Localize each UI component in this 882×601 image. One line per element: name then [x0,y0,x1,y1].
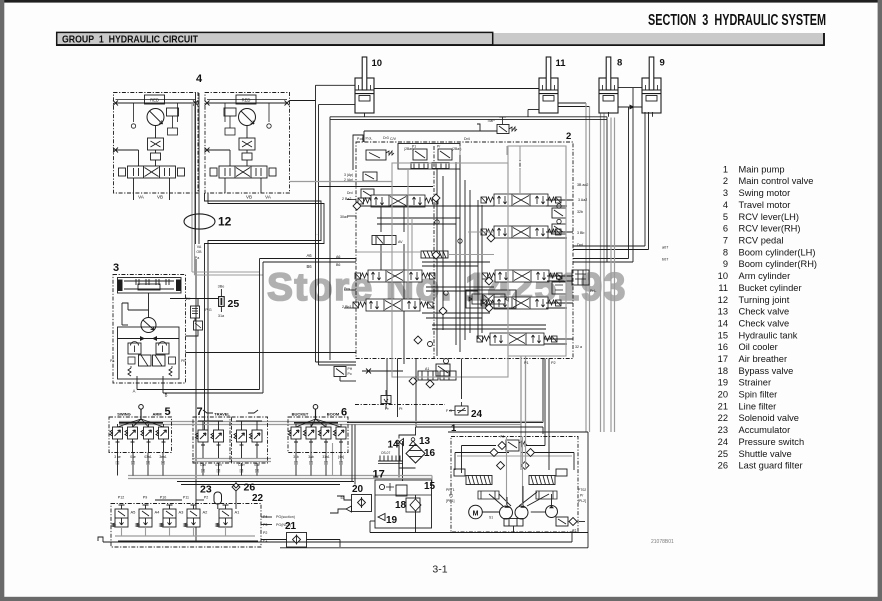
wire: lines below turning joint [195,259,197,542]
svg-text:BUCKET: BUCKET [292,412,309,417]
svg-text:24: 24 [471,409,483,420]
check valve 14 [396,439,404,446]
svg-text:Travel motor: Travel motor [739,200,791,210]
svg-text:A4: A4 [155,510,161,515]
svg-text:PB: PB [181,359,186,363]
svg-text:Swing motor: Swing motor [739,188,791,198]
solenoid valve A4 [136,505,152,527]
swing motor port wires A/B [137,259,356,394]
group header box [57,32,493,44]
wire: right side vertical pipes from cylinders [573,88,649,432]
wire: valve internal verticals [381,146,520,364]
bypass valve 18-left small [334,367,356,382]
svg-text:P12: P12 [118,496,124,500]
svg-text:BOOM: BOOM [327,412,340,417]
wire: pump discharge [462,434,552,506]
svg-text:19: 19 [386,515,398,526]
wire: return line to cooler [416,359,543,435]
pilot relief valve top [462,435,546,452]
svg-text:10: 10 [718,271,728,281]
svg-text:P9: P9 [143,496,147,500]
wire: gray pilot lines inside valve [356,146,566,333]
svg-text:VB: VB [157,195,163,200]
svg-text:30a4: 30a4 [340,215,348,219]
shuttle valve 25 [170,285,225,337]
aux pilot valve right column second [552,219,566,234]
solenoid valve block enclosure (dash-dot) [111,504,261,548]
svg-text:RCV pedal: RCV pedal [739,236,784,246]
boom1 spool [481,194,561,206]
svg-text:AV: AV [398,240,403,244]
pump outer frame [448,432,588,548]
wire: Pr P1 stubs below valve [385,359,462,418]
svg-text:21: 21 [285,521,297,532]
hydraulic tank 15 [375,480,432,528]
svg-text:Solenoid valve: Solenoid valve [739,413,799,423]
svg-text:Pa: Pa [195,256,199,260]
aux valve between right spools [552,204,589,294]
svg-text:10: 10 [372,58,383,69]
svg-text:A6: A6 [306,253,312,258]
svg-text:31a: 31a [218,314,225,318]
svg-text:a07: a07 [662,246,668,250]
svg-text:8: 8 [617,58,622,69]
svg-text:Main control valve: Main control valve [739,176,814,186]
svg-text:Air breather: Air breather [739,354,788,364]
svg-text:7: 7 [723,236,728,246]
RCV lever RH block 6 [288,405,348,453]
svg-text:PH: PH [348,367,353,371]
svg-text:P11: P11 [183,496,189,500]
svg-text:16: 16 [424,448,436,459]
wire: valve internal horizontals [290,182,573,345]
spin filter 20 [330,495,372,514]
boom2 spool [353,299,433,311]
page top black border [0,0,882,3]
svg-text:P2: P2 [204,496,208,500]
svg-text:Strainer: Strainer [739,378,772,388]
svg-text:b07: b07 [662,258,668,262]
svg-text:Drd: Drd [347,191,353,195]
svg-text:20: 20 [718,390,728,400]
svg-text:Boom cylinder(RH): Boom cylinder(RH) [739,259,818,269]
svg-text:2 Ba2: 2 Ba2 [342,197,351,201]
svg-text:15: 15 [718,330,728,340]
legend list [718,164,817,470]
svg-text:5: 5 [723,212,728,222]
svg-text:B: B [165,393,168,398]
wire: pump internal rails [455,437,574,506]
svg-text:Turning joint: Turning joint [739,295,790,305]
check valve 13 [410,438,417,446]
svg-text:Dr3: Dr3 [383,136,389,140]
svg-text:3Be: 3Be [218,285,225,289]
wire: pilot gray lines to swing area [192,272,263,275]
svg-text:VA: VA [265,195,271,200]
svg-text:Check valve: Check valve [739,307,790,317]
svg-text:3: 3 [113,262,119,274]
svg-text:VB: VB [246,195,252,200]
svg-text:Po: Po [348,372,352,376]
svg-text:A2: A2 [572,529,576,533]
main control valve enclosure (dash-dot) [356,142,573,359]
main pump enclosure (dash-dot) [451,437,578,533]
relief valve on top line [364,117,517,142]
svg-text:M: M [473,511,479,518]
svg-text:PT02: PT02 [578,488,586,492]
svg-text:Accumulator: Accumulator [739,425,791,435]
junction circles [444,291,448,295]
svg-text:12: 12 [718,295,728,305]
air breather 17 [378,451,403,464]
svg-text:RED: RED [242,98,251,103]
svg-text:17: 17 [373,469,385,481]
svg-text:7: 7 [197,406,203,418]
svg-text:OS-07: OS-07 [381,451,390,455]
svg-text:Shuttle valve: Shuttle valve [739,449,792,459]
svg-text:TMP: TMP [487,119,495,123]
svg-text:A2: A2 [203,510,209,515]
swing spool [355,270,435,282]
swing makeup/relief valves [110,303,186,383]
RCV pedal block 7 [193,410,268,463]
drain step symbol [98,537,103,542]
main circuit outer frame [330,117,607,423]
svg-text:18: 18 [718,366,728,376]
bypass cut valve top-left [344,135,394,198]
boom main spool [481,297,561,309]
bucket spool [482,270,562,282]
node diamonds on feed lines [432,194,440,202]
svg-text:4: 4 [723,200,728,210]
travel motor right enclosure (dash-dot) [205,93,290,194]
svg-text:6: 6 [723,224,728,234]
svg-text:[PL2]: [PL2] [578,499,586,503]
svg-text:GROUP 1 HYDRAULIC CIRCUIT: GROUP 1 HYDRAULIC CIRCUIT [62,35,199,46]
section title underline bar [56,33,824,45]
svg-text:[PR1]: [PR1] [446,499,455,503]
travel motor right internals [205,95,290,193]
svg-text:A1: A1 [425,367,429,371]
svg-text:SECTION 3 HYDRAULIC SYSTEM: SECTION 3 HYDRAULIC SYSTEM [648,12,826,29]
wire: P1 P2 pump feed lines [521,356,556,434]
svg-text:Boom cylinder(LH): Boom cylinder(LH) [739,247,816,257]
svg-text:21: 21 [718,401,728,411]
svg-text:14: 14 [388,440,400,451]
svg-text:Oil cooler: Oil cooler [739,342,778,352]
solenoid valve A2 [184,505,200,527]
svg-text:21078B01: 21078B01 [651,539,674,545]
page left gray border [0,0,4,601]
svg-text:3 (Ap): 3 (Ap) [344,173,353,177]
svg-text:VA: VA [197,245,202,249]
svg-text:22: 22 [252,493,264,504]
wire: RCV pilot drops to rail [118,453,342,476]
oil cooler 16 [406,444,425,463]
right regulator [529,469,586,503]
svg-text:22: 22 [718,413,728,423]
svg-text:B6: B6 [336,263,340,267]
svg-text:17: 17 [718,354,728,364]
pilot reducer sub-box in valve [398,144,461,170]
svg-text:32b: 32b [577,210,583,214]
svg-text:P1: P1 [449,494,453,498]
svg-text:Arm cylinder: Arm cylinder [739,271,791,281]
svg-text:12: 12 [218,215,232,229]
svg-text:A1: A1 [500,435,504,439]
node diamond row2 left [487,234,495,242]
svg-text:RCV lever(LH): RCV lever(LH) [739,212,799,222]
svg-text:11: 11 [556,58,567,69]
arm1 spool [477,333,557,345]
svg-text:23: 23 [200,484,212,496]
swing brake cylinder [118,278,182,294]
svg-text:23: 23 [718,425,728,435]
svg-text:S1: S1 [489,516,493,520]
svg-text:P2: P2 [551,361,556,365]
svg-text:2 Bb1: 2 Bb1 [342,305,351,309]
cooler bypass loop [399,427,416,439]
main pump circles [489,492,549,533]
svg-text:Bucket cylinder: Bucket cylinder [739,283,802,293]
svg-text:A3: A3 [179,510,185,515]
travel motor left enclosure (dash-dot) [114,93,199,194]
svg-text:Line filter: Line filter [739,401,777,411]
travel spool [358,195,438,207]
svg-text:13: 13 [718,307,728,317]
turning joint ellipse 12 [184,214,215,229]
svg-text:P.ol: P.ol [357,137,363,141]
svg-text:ARM: ARM [152,412,162,417]
svg-text:32 a: 32 a [575,345,582,349]
svg-text:9: 9 [660,58,665,69]
inner gray frame of valve [508,146,566,356]
svg-text:PRT1: PRT1 [446,488,455,492]
svg-text:A5: A5 [131,510,137,515]
svg-text:RED: RED [150,98,159,103]
RCV lever LH block 5 [109,405,172,453]
svg-text:3 Bb: 3 Bb [577,231,584,235]
svg-text:9: 9 [723,259,728,269]
svg-text:OB: OB [196,250,202,254]
accumulator 23 [214,492,222,509]
suction strainer 18 [406,495,421,528]
svg-text:3-1: 3-1 [432,564,447,576]
svg-text:51: 51 [341,496,345,500]
svg-text:IP G: IP G [204,308,212,312]
svg-text:PG(suction): PG(suction) [276,515,295,519]
svg-text:C/V: C/V [390,137,397,141]
drain plug 19 [378,514,385,521]
line filter 21 [261,533,340,548]
svg-text:4: 4 [196,73,203,85]
svg-text:2: 2 [566,131,571,142]
svg-text:Pressure switch: Pressure switch [739,437,805,447]
wire: left border port stubs [344,200,356,309]
svg-text:Dr4: Dr4 [464,137,470,141]
svg-text:20: 20 [352,484,364,495]
wire: long gray rails above RCV blocks [119,422,546,487]
arm cylinder 10 [355,57,374,113]
svg-text:Pi: Pi [399,407,403,411]
solenoid valve A5 [112,505,128,527]
svg-text:PnL: PnL [590,289,596,293]
svg-text:6: 6 [341,407,347,419]
wire: bottom return lines [103,533,588,548]
page bottom gray border [0,597,882,601]
main relief cluster bottom [362,342,456,389]
svg-text:P3: P3 [263,523,267,527]
svg-text:TRAVEL: TRAVEL [214,412,230,417]
svg-text:Pa: Pa [110,359,114,363]
svg-text:Bypass valve: Bypass valve [739,366,794,376]
svg-text:18: 18 [395,500,407,511]
electric motor M [469,505,499,519]
page right gray border [878,0,882,601]
svg-text:P1: P1 [524,361,529,365]
arm2 spool [481,226,561,238]
svg-text:8: 8 [723,247,728,257]
svg-text:P.oL: P.oL [366,137,373,141]
swing motor circle [122,293,156,333]
svg-text:P2: P2 [263,531,267,535]
shuttle check 26 [232,481,240,509]
svg-text:26: 26 [718,461,728,471]
swing anti-cavitation valves [118,327,180,379]
svg-text:25: 25 [718,449,728,459]
svg-text:19: 19 [718,378,728,388]
wire: cylinder interconnections [316,85,653,117]
wire: right travel box to trunk [290,100,316,102]
svg-text:1: 1 [723,164,728,174]
wire: solenoid block internals [115,517,272,541]
svg-text:P10: P10 [160,496,166,500]
svg-text:2: 2 [723,176,728,186]
wire: left trunk pair [316,85,357,365]
boom cylinder RH 9 [642,57,661,113]
svg-text:B6: B6 [306,264,312,269]
wire: swing mid line to valve [186,352,357,354]
swing motor enclosure (dash-dot) [113,275,186,384]
svg-text:SWING: SWING [117,412,131,417]
svg-text:Pns: Pns [344,287,350,291]
svg-text:RCV lever(RH): RCV lever(RH) [739,224,801,234]
svg-text:15: 15 [424,481,436,492]
svg-text:25: 25 [228,298,240,310]
svg-text:F G: F G [446,409,452,413]
pressure switch 24 [446,402,468,415]
boom cylinder LH 8 [599,57,618,113]
svg-text:13: 13 [419,436,431,447]
option hatch box [421,251,448,258]
svg-text:3B ao2: 3B ao2 [577,183,588,187]
svg-text:11: 11 [718,283,728,293]
svg-text:16: 16 [718,342,728,352]
travel straight spool small [372,236,403,245]
svg-text:2H: 2H [186,297,191,301]
svg-text:A6: A6 [336,255,340,259]
travel motor left internals [113,95,198,193]
wire: block6 P2 drop pair [333,441,403,481]
pilot section dash line [355,390,445,409]
svg-text:26: 26 [244,482,256,494]
svg-text:3 Aa2: 3 Aa2 [578,198,587,202]
svg-text:A1: A1 [235,510,241,515]
solenoid valve A1 [216,505,232,527]
svg-text:Last guard filter: Last guard filter [739,461,803,471]
svg-text:VA: VA [138,195,144,200]
svg-text:Hydraulic tank: Hydraulic tank [739,330,798,340]
gear pilot pump [531,506,558,518]
solenoid valve A3 [160,505,176,527]
svg-text:14: 14 [718,318,728,328]
svg-text:Spin filter: Spin filter [739,390,778,400]
svg-text:5: 5 [165,406,171,418]
bucket cylinder 11 [539,57,558,113]
svg-text:Main pump: Main pump [739,164,785,174]
wire: travel lines center bundle [134,93,325,430]
svg-text:P1: P1 [412,145,416,149]
svg-text:24: 24 [718,437,728,447]
left regulator [446,469,499,503]
wire: tank outlet [370,521,416,533]
negative control sub-box [466,290,516,308]
pilot relief small [556,517,585,533]
svg-text:Drd: Drd [577,243,583,247]
svg-text:A: A [133,389,136,394]
svg-text:3: 3 [723,188,728,198]
svg-text:Check valve: Check valve [739,318,790,328]
